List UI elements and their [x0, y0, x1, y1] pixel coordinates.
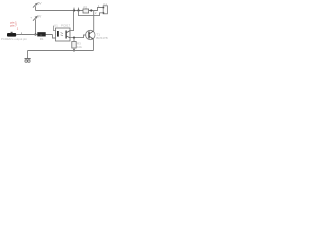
- ground circle 2: [28, 60, 30, 62]
- resistor R1 (dark, value inside): [38, 32, 46, 36]
- connector K1: [103, 2, 108, 14]
- Q1 emitter stroke with arrow: [90, 36, 94, 39]
- wire: supply 2 lead down to input net: [35, 19, 37, 34]
- wire: node E down to R3: [73, 38, 75, 42]
- port pin tick: [21, 32, 23, 34]
- wire: R3 to ground rail: [73, 48, 75, 51]
- opto collector stroke: [67, 31, 70, 33]
- wire: top rail to connector pin 1: [94, 8, 103, 11]
- svg-text:U1: U1: [54, 24, 58, 28]
- Q1 collector stroke: [90, 31, 94, 34]
- port J1 (PC REM output, filled): [7, 33, 16, 37]
- svg-text:R1: R1: [40, 37, 44, 41]
- opto light arrows: [61, 33, 63, 36]
- supply arrow +5V arrowhead: [35, 3, 38, 6]
- resistor R3 (vertical): [72, 42, 76, 49]
- svg-text:+: +: [30, 15, 32, 19]
- resistor R2 (in line, top rail): [83, 5, 89, 13]
- node dot E (emitter/R3): [73, 37, 75, 39]
- wire: supply 1 lead down: [35, 6, 37, 10]
- wire: ground rail: [28, 50, 94, 52]
- wire: opto collector up to top rail: [70, 11, 74, 31]
- node dot B: [77, 9, 79, 11]
- svg-text:PC817: PC817: [61, 24, 71, 28]
- transistor Q1 circle: [86, 30, 95, 39]
- svg-text:R2: R2: [83, 5, 87, 9]
- wire: port to R1 (input net y=34.5): [16, 34, 52, 36]
- wire: emitter down to ground rail: [93, 39, 95, 50]
- supply arrow +9V (second): [33, 16, 37, 20]
- wire: R1 to optocoupler anode (jog down): [53, 35, 56, 39]
- Q1 emitter arrowhead: [91, 38, 93, 40]
- opto phototransistor bar: [66, 31, 67, 39]
- ground circle 1: [25, 60, 27, 62]
- svg-text:K1: K1: [103, 2, 107, 6]
- node dot F (rail): [73, 49, 75, 51]
- node tick A (x=74): [73, 8, 75, 11]
- Q1 base bar: [88, 32, 89, 39]
- svg-text:BC547B: BC547B: [96, 36, 107, 40]
- node dot C (x=91.5): [90, 9, 92, 11]
- node dot D (x=35.5 on input wire): [34, 33, 36, 35]
- opto emitter stroke: [67, 36, 70, 38]
- optocoupler U1 box: [56, 28, 71, 41]
- port J1 top nub: [11, 32, 13, 33]
- wire: collector up to rail: [93, 11, 95, 31]
- svg-text:10k: 10k: [77, 45, 82, 49]
- wire: lower branch to connector pin 2: [79, 11, 104, 16]
- ground bar: [25, 58, 31, 60]
- optocoupler pin 1 stub: [54, 26, 56, 31]
- supply arrow +5V (top): [33, 3, 37, 7]
- wire: opto emitter to Q1 base (jog up at x=83.5): [70, 35, 86, 38]
- wire: rail down to ground symbol: [27, 51, 29, 59]
- node dot A: [73, 9, 75, 11]
- supply arrow 2 arrowhead: [35, 16, 38, 19]
- svg-text:PCREM's output pin: PCREM's output pin: [1, 37, 27, 41]
- opto LED bar: [57, 31, 59, 37]
- node tick B (x=78.5): [78, 8, 80, 11]
- wire: main top rail y=10.5: [36, 10, 94, 12]
